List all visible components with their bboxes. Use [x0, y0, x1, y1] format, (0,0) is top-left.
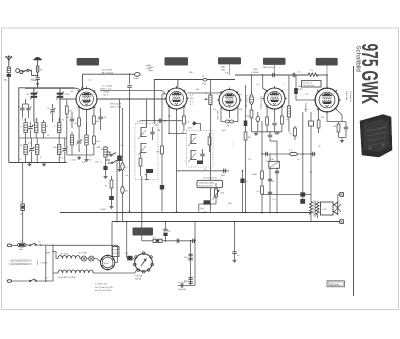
tuning gang C3 [26, 88, 38, 101]
coupling cap C15 [271, 73, 276, 77]
coil L11 [85, 122, 88, 158]
cap dark on AVC [160, 185, 164, 189]
trimmer C7 [29, 138, 35, 163]
IF1 feed vertical [146, 99, 148, 128]
speaker to terminal [338, 194, 340, 196]
coil L9 [58, 138, 61, 163]
svg-text:1M: 1M [156, 151, 159, 153]
dark comp [204, 200, 211, 204]
bus 2 [112, 221, 342, 223]
vertical c with caps [269, 154, 271, 214]
svg-text:1M: 1M [125, 191, 128, 193]
coil L12 [104, 146, 107, 166]
antenna A1 (rod) [6, 56, 12, 67]
svg-text:→100mA: →100mA [133, 274, 143, 277]
svg-text:U1k UBF Uh UCH: U1k UBF Uh UCH [58, 277, 76, 279]
ballast winding row 2 [53, 272, 58, 274]
oval capacitor d7 [202, 76, 207, 86]
svg-text:450V: 450V [298, 89, 304, 91]
svg-text:M: M [40, 70, 42, 72]
resistor Pu zigzag [308, 70, 318, 77]
cap blob at end [300, 199, 305, 204]
tuning gang C4 [56, 88, 70, 101]
svg-text:UCH 11: UCH 11 [222, 59, 234, 63]
svg-text:2x(500kΩ+2MΩ): 2x(500kΩ+2MΩ) [199, 182, 215, 184]
wire IF1 down [141, 176, 143, 222]
capacitor C13 dark [117, 156, 122, 162]
vertical line m [129, 99, 131, 212]
svg-text:ZBl(2x0,1µF): ZBl(2x0,1µF) [260, 96, 262, 109]
svg-text:1µF: 1µF [200, 208, 204, 210]
plug sockets P1 P2 [16, 69, 30, 74]
rectifier label box UY11 [133, 228, 154, 236]
osc coil oval [250, 95, 254, 105]
antenna coil L1 [7, 67, 10, 73]
svg-text:→ 47mA: → 47mA [101, 91, 110, 94]
ground G6 [110, 205, 114, 208]
tube label box UCH11 [77, 58, 99, 66]
svg-text:6V 0,3A: 6V 0,3A [79, 251, 87, 254]
svg-text:NSF: NSF [46, 252, 51, 254]
mains plug prong 2 [7, 280, 29, 283]
antenna earth drop wire [22, 163, 24, 246]
IF2 coil a [188, 135, 197, 147]
resistor R17 [244, 132, 251, 140]
wire to rectifier [97, 259, 101, 262]
ground G5 [118, 168, 122, 171]
riser with cap to circle2 [126, 222, 128, 258]
svg-text:Regelung n/Pot: Regelung n/Pot [199, 185, 214, 188]
grid stopper down from pin [310, 118, 312, 202]
IF2 coil b [188, 151, 197, 163]
resistor R3 [93, 116, 101, 134]
radio product photo [360, 115, 392, 158]
svg-text:→2Bl,2: →2Bl,2 [251, 69, 259, 71]
svg-text:UBF 11: UBF 11 [169, 60, 180, 64]
cap C27 dark [103, 166, 107, 170]
svg-text:→ 88x 120mA: → 88x 120mA [99, 71, 113, 74]
AF bottom wire [199, 203, 216, 205]
cap C24 [275, 132, 279, 134]
oval resistor Ra [121, 163, 129, 170]
IF2 trim cap [200, 149, 204, 162]
riser V5 [326, 75, 328, 88]
oscillator coil L10 [70, 132, 73, 155]
svg-text:5kΩ: 5kΩ [221, 175, 225, 177]
resistor R6 [183, 116, 190, 131]
resistor R5 [105, 176, 113, 196]
V3 center pin down [229, 111, 231, 118]
capacitor C2 200p [31, 78, 40, 81]
IF2 resistor [208, 133, 211, 152]
connection box [321, 202, 334, 215]
V5 pins down [318, 108, 320, 120]
bottom wire [178, 285, 195, 287]
tube label box UCH11 second [218, 57, 241, 64]
svg-text:6-24: 6-24 [65, 94, 70, 96]
resistor R14 [317, 120, 320, 133]
svg-text:mit 500kΩ Pot: mit 500kΩ Pot [203, 177, 217, 180]
svg-text:4,7kΩm: 4,7kΩm [251, 72, 259, 74]
umbrella antenna A2 [34, 57, 42, 66]
svg-text:→ gBm: → gBm [146, 70, 153, 72]
svg-text:2x0,1µF: 2x0,1µF [178, 282, 187, 284]
vertical with dark cap [240, 170, 248, 212]
svg-text:→ gBth: → gBth [144, 64, 152, 67]
wave switch contacts [106, 152, 116, 160]
svg-text:GBth: GBth [134, 77, 140, 80]
IF2 cap bottom [197, 161, 203, 165]
cap on d [275, 164, 279, 173]
cap C18 [266, 152, 268, 156]
heater riser [116, 160, 118, 222]
IF can 1 shield (dashed) [135, 124, 158, 180]
junction wire [19, 137, 67, 139]
cap C20 [268, 192, 272, 194]
svg-text:2x0,1µF mf: 2x0,1µF mf [349, 91, 351, 102]
core lines [313, 201, 315, 217]
svg-text:1,5kΩ: 1,5kΩ [100, 209, 106, 211]
resistor R11 [261, 171, 264, 179]
vertical with coil [251, 75, 253, 94]
tube label box UBF11 [165, 57, 189, 65]
ground G7 [254, 132, 258, 135]
long vertical from d7 junction [209, 80, 211, 212]
choke GBth oval [135, 73, 141, 77]
svg-text:→ 0,1 12µA: → 0,1 12µA [100, 85, 112, 88]
ballast winding row 1 [53, 252, 58, 259]
tube label box UBF11 second [263, 58, 286, 65]
bottom wire v3 group [252, 131, 283, 133]
coil L8 [36, 138, 39, 163]
IF1 resistor [139, 153, 142, 177]
cap C26 [221, 169, 225, 178]
svg-text:1U/N: 1U/N [103, 263, 108, 265]
svg-text:~ 110/125/150/220 V: ~ 110/125/150/220 V [9, 260, 32, 263]
vertical line k [122, 108, 124, 222]
volume pot [213, 183, 225, 204]
trimmer C8 [62, 138, 68, 163]
box riser 3 [229, 64, 231, 75]
svg-text:→ 1Bk: → 1Bk [186, 72, 193, 74]
svg-text:→ 4Isch: → 4Isch [101, 95, 110, 97]
cap dark on wire [300, 192, 305, 196]
ground G9 [104, 175, 108, 178]
dial lamp La2 [86, 256, 97, 261]
IF1 coil a [138, 124, 147, 140]
decoupling branch [129, 74, 131, 84]
vertical b [261, 121, 263, 214]
padder C12 [76, 136, 82, 152]
wire grid to tube V1 [60, 98, 74, 100]
transformer bottoms [310, 215, 312, 222]
coil L7 [24, 138, 27, 163]
AVC long line [161, 94, 163, 212]
vertical osc coupling [119, 99, 121, 156]
screen wire [25, 88, 80, 90]
svg-text:→ Tief 52mA: → Tief 52mA [99, 68, 112, 71]
terminal T2 [340, 193, 344, 197]
resistor R7 on it [209, 95, 212, 105]
ground G3 [77, 156, 81, 159]
padder cap C5 [47, 104, 55, 122]
tone capacitor C25 [232, 221, 240, 262]
ground G4 [85, 158, 89, 161]
detector wire [262, 153, 316, 155]
svg-text:→ 4Bk: → 4Bk [219, 70, 226, 72]
svg-text:2Bl(2x0,1µF): 2Bl(2x0,1µF) [263, 67, 276, 69]
comp on 311 [309, 121, 314, 126]
coil L6 [54, 118, 61, 138]
svg-text:= 110/125/150/220 V: = 110/125/150/220 V [9, 263, 32, 266]
output terminal T1 [340, 220, 344, 224]
oval resistor Rb [121, 186, 128, 193]
capacitor C1 [3, 74, 11, 81]
second long vertical [302, 118, 304, 199]
svg-text:Combi: Combi [31, 80, 38, 82]
long vertical a [245, 85, 247, 214]
svg-text:5H: 5H [196, 89, 199, 91]
coil L5 [42, 120, 49, 138]
oscillator feedback wire [99, 98, 165, 100]
cathode loop under V3 [221, 108, 238, 122]
svg-text:gBm: gBm [221, 67, 226, 69]
svg-text:→ 2µm: → 2µm [144, 68, 151, 70]
tube V3 UCH11 [217, 88, 242, 113]
resistor R8 [246, 110, 253, 132]
grid blob [294, 75, 315, 100]
IF can 2 shield (dashed) [187, 131, 214, 168]
arrow junction into band box [36, 83, 39, 86]
dark cap on line a [244, 121, 248, 127]
resistor R9 [266, 117, 269, 132]
svg-text:ab 15 mm 4,5 V/N: ab 15 mm 4,5 V/N [95, 287, 113, 289]
svg-text:2µF 0,5W: 2µF 0,5W [216, 110, 218, 120]
B+ wire [141, 222, 143, 241]
svg-text:→ 88V 0,4mA: → 88V 0,4mA [108, 103, 122, 106]
tube V2 UBF11 IF [164, 86, 189, 111]
selector vertical [45, 245, 47, 281]
indicator component [269, 159, 280, 169]
cap tap at 154 [310, 152, 314, 156]
svg-text:0,1µ: 0,1µ [292, 135, 297, 137]
vertical d [276, 141, 278, 214]
svg-text:2x0,1µF wird: 2x0,1µF wird [303, 85, 315, 87]
resistor R1 [65, 99, 73, 138]
wire from switch arm to umbrella stem [29, 70, 37, 75]
AF coupling wire [177, 170, 229, 172]
cap C19 [268, 179, 275, 183]
wire to power box [53, 244, 118, 246]
bottom wires [67, 154, 94, 156]
svg-text:UBF 11: UBF 11 [267, 60, 278, 64]
corner from mains [117, 245, 119, 262]
box riser 4 [274, 65, 276, 75]
vertical link mains [52, 245, 54, 281]
svg-text:1M: 1M [157, 130, 160, 132]
wire [37, 72, 39, 77]
wire plate top V1 [81, 74, 83, 87]
cathode network [327, 113, 335, 122]
capacitor C17 [272, 123, 276, 132]
riser to V4 [263, 75, 266, 91]
capacitor C14 dark [109, 196, 114, 200]
svg-text:←63mA: ←63mA [133, 278, 141, 281]
riser circle1 top [111, 222, 113, 256]
svg-text:293 041: 293 041 [329, 282, 340, 286]
rectifier tube circle [101, 255, 115, 271]
svg-text:5000: 5000 [252, 174, 258, 176]
screen resistor striped [287, 75, 290, 132]
grid wire V2 to V3 [188, 92, 223, 94]
svg-text:1: 1 [144, 172, 149, 182]
tube V5 UCL11 output [313, 86, 341, 114]
IF1 coil b [138, 144, 147, 156]
cap C21 [344, 122, 348, 138]
dial lamp La1 [79, 251, 87, 261]
separator line right column [353, 66, 355, 296]
heater socket circle2 [134, 252, 154, 273]
under tube V1: pins down [78, 106, 80, 118]
resistor R10 [281, 116, 284, 132]
V4 pins down [266, 106, 268, 117]
filter caps column [190, 241, 192, 286]
svg-text:50µF 4µF: 50µF 4µF [345, 91, 347, 101]
switch S2 [30, 279, 37, 282]
IF1 cap bottom [146, 169, 153, 173]
resistor on AVC [156, 146, 163, 154]
contact pair [108, 160, 117, 163]
part number stamp box [327, 281, 345, 287]
resistor R12 [257, 186, 264, 194]
AVC wire to V2 [100, 90, 162, 92]
capacitor C10 [67, 112, 74, 128]
box frame band coils [19, 88, 75, 162]
AVC diode blob [193, 121, 197, 126]
svg-text:mit 78 mm 75/09: mit 78 mm 75/09 [95, 289, 112, 292]
fuse Si [19, 202, 24, 216]
IF1 trim cap [150, 127, 154, 140]
svg-text:UCL 11: UCL 11 [319, 60, 330, 64]
svg-text:mit UCL 11: mit UCL 11 [303, 81, 314, 84]
svg-text:30µF(B): 30µF(B) [178, 289, 186, 291]
transformer primary [310, 202, 313, 215]
anode supply wire top [82, 73, 134, 75]
ground G8 [340, 139, 344, 142]
capacitor C11 [98, 108, 106, 130]
switch S1 [30, 243, 37, 246]
oval resistor 4,7 [289, 150, 298, 156]
arrow marker [205, 98, 208, 100]
svg-text:m 20mm 0/2: m 20mm 0/2 [95, 283, 108, 285]
cap C23 [193, 239, 195, 243]
antenna coil L2 [36, 66, 42, 72]
bus 1 [60, 212, 311, 214]
svg-text:C 100: C 100 [70, 160, 77, 162]
top hat wire over V2 [154, 80, 235, 124]
dropper box [112, 247, 119, 257]
coupling cap C16 [293, 73, 295, 77]
svg-text:UCH 11: UCH 11 [80, 60, 92, 64]
electrolytic from bus2 [163, 221, 171, 242]
small oval component [256, 112, 260, 132]
ground G1 [28, 163, 32, 166]
resistor R18 [289, 126, 296, 140]
svg-text:≈ 220 V: ≈ 220 V [40, 262, 48, 265]
transformer secondary [316, 202, 319, 215]
wire into IF2 [168, 133, 187, 135]
trimmer C6 [28, 122, 34, 138]
note box [302, 81, 322, 88]
wires gang down [33, 101, 35, 122]
top caps row y141 [270, 140, 277, 142]
wire antenna down [8, 73, 10, 74]
bottom ground wire [9, 162, 67, 164]
oval pair [225, 120, 229, 123]
coil L3 [21, 118, 27, 138]
svg-text:1M: 1M [248, 137, 251, 139]
svg-text:10kΩ/5W: 10kΩ/5W [304, 103, 306, 113]
svg-text:→ 98V 0,1mA: → 98V 0,1mA [108, 106, 122, 109]
ground G2 [42, 163, 46, 166]
mains plug prong 1 [7, 244, 14, 247]
plate supply wire segment [235, 74, 308, 76]
svg-text:UY 11 A: UY 11 A [60, 253, 68, 256]
resistor R16 [153, 237, 162, 243]
callout box [197, 180, 223, 187]
resistor R2 [74, 118, 80, 136]
wire [37, 80, 39, 88]
tube V1 UCH11 mixer [74, 87, 99, 112]
svg-text:Schaltbild: Schaltbild [355, 46, 362, 73]
wire to transformer [262, 194, 311, 196]
right edge power box [194, 222, 196, 286]
cap C22 [177, 239, 179, 243]
tube label box UCL11 [316, 58, 338, 66]
cathode wire under V2 [141, 120, 182, 122]
svg-text:UY 11: UY 11 [136, 230, 145, 234]
cap pair on cathode wire [159, 119, 166, 123]
fuse F1 [14, 241, 29, 251]
svg-text:SiA: SiA [19, 248, 23, 251]
tube V4 UBF11 [262, 86, 287, 111]
resistor R15 [333, 122, 340, 138]
coil L4 [35, 118, 38, 138]
V2 pin wires down [168, 106, 170, 134]
heater drop V1 [86, 122, 88, 135]
resistor R4 [93, 134, 101, 155]
cap row left [18, 104, 25, 118]
speaker [333, 202, 341, 215]
box riser 5 [326, 66, 328, 76]
